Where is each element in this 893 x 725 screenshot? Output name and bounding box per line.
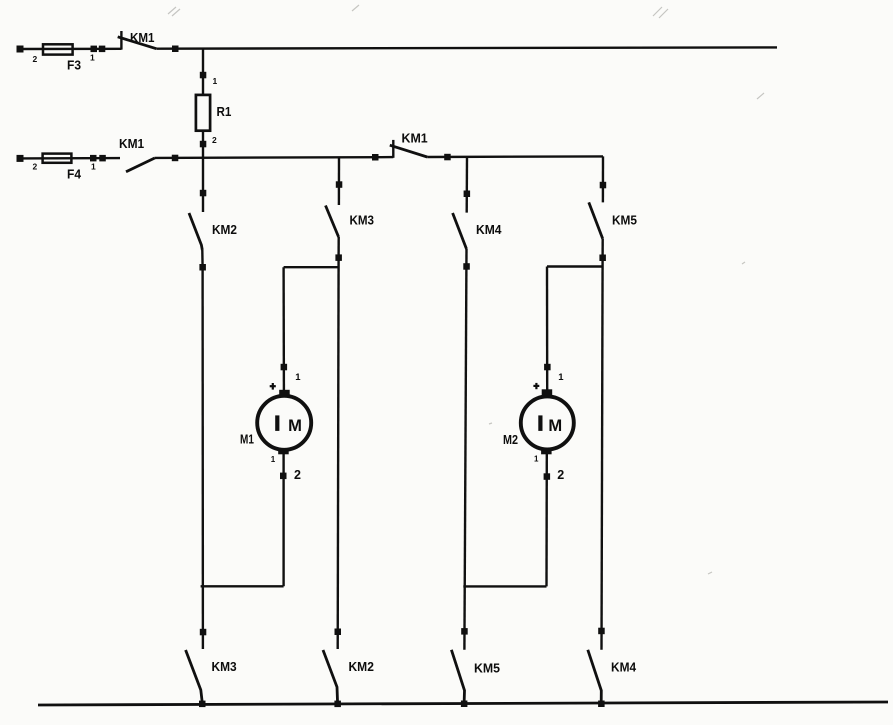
- svg-text:2: 2: [33, 162, 38, 172]
- svg-text:R1: R1: [217, 104, 232, 119]
- svg-text:KM3: KM3: [212, 659, 237, 674]
- svg-text:2: 2: [33, 54, 38, 64]
- svg-text:1: 1: [90, 53, 95, 63]
- svg-text:KM1: KM1: [130, 30, 155, 45]
- svg-text:KM5: KM5: [612, 213, 637, 228]
- svg-text:1: 1: [558, 372, 564, 383]
- svg-text:KM4: KM4: [611, 660, 637, 675]
- svg-text:KM5: KM5: [474, 661, 500, 676]
- svg-text:1: 1: [271, 455, 276, 464]
- svg-text:1: 1: [295, 372, 301, 383]
- svg-text:M1: M1: [240, 432, 254, 447]
- svg-text:KM1: KM1: [402, 131, 428, 146]
- svg-text:KM2: KM2: [212, 222, 237, 237]
- svg-text:2: 2: [212, 135, 217, 145]
- svg-text:KM4: KM4: [476, 222, 502, 237]
- svg-text:KM3: KM3: [350, 213, 375, 228]
- svg-text:2: 2: [557, 468, 564, 482]
- svg-text:M: M: [288, 417, 302, 435]
- svg-text:F4: F4: [67, 167, 82, 182]
- svg-text:KM2: KM2: [349, 659, 374, 674]
- svg-text:F3: F3: [67, 58, 81, 73]
- svg-text:1: 1: [213, 76, 218, 86]
- svg-text:M: M: [548, 417, 562, 435]
- svg-text:2: 2: [294, 468, 301, 482]
- svg-text:M2: M2: [503, 432, 518, 447]
- svg-text:1: 1: [91, 162, 96, 172]
- svg-text:KM1: KM1: [119, 136, 144, 151]
- svg-text:1: 1: [534, 455, 539, 464]
